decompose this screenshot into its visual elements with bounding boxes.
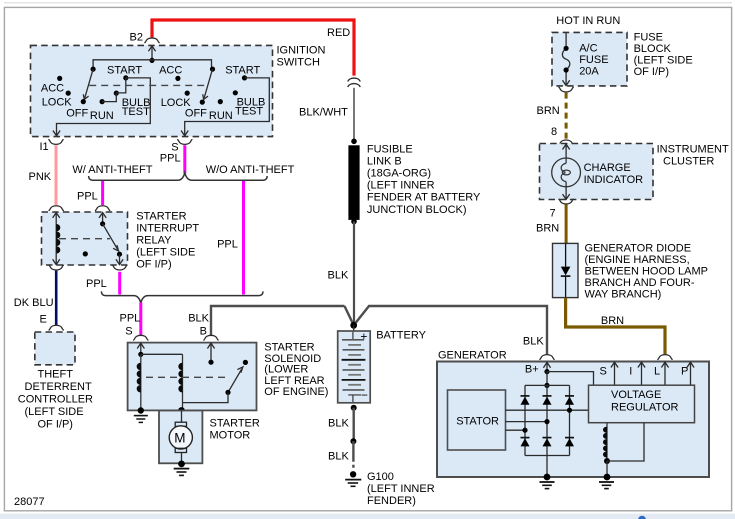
field coil junction dot	[604, 458, 610, 464]
battery box	[338, 331, 371, 403]
svg-text:START: START	[225, 64, 260, 76]
solenoid S junction dot	[138, 352, 143, 357]
battery negative terminal dot	[351, 405, 357, 411]
wire DK BLU relay to theft controller	[55, 271, 58, 326]
svg-text:VOLTAGE: VOLTAGE	[611, 389, 661, 401]
battery plates	[342, 332, 366, 403]
svg-text:GENERATOR DIODE: GENERATOR DIODE	[585, 243, 692, 255]
svg-text:I: I	[629, 366, 632, 378]
connector below relay coil	[49, 265, 64, 270]
svg-text:(LEFT INNER: (LEFT INNER	[367, 483, 435, 495]
stator phase wire 2	[506, 421, 548, 423]
svg-text:STARTER: STARTER	[210, 417, 260, 429]
svg-text:BLK: BLK	[328, 417, 349, 429]
svg-text:THEFT: THEFT	[38, 369, 74, 381]
contact dot OFF left	[81, 99, 86, 104]
terminal P arrow	[687, 362, 694, 385]
rectifier column 2	[546, 385, 548, 477]
svg-text:S: S	[171, 141, 178, 153]
svg-text:FUSE: FUSE	[634, 31, 663, 43]
wire motor to ground	[181, 453, 183, 464]
svg-text:DETERRENT: DETERRENT	[25, 381, 93, 393]
motor ground dot	[178, 461, 185, 468]
svg-text:OF I/P): OF I/P)	[136, 259, 171, 271]
wire START to BULB TEST left	[116, 78, 126, 93]
svg-text:STARTER: STARTER	[264, 342, 314, 354]
ground at rectifier	[540, 482, 555, 489]
relay coil terminal arrow bottom	[53, 251, 60, 264]
svg-text:CHARGE: CHARGE	[584, 162, 631, 174]
diode lower col3	[565, 438, 574, 447]
ignition switch box	[31, 45, 273, 136]
contact dot LOCK right	[185, 91, 190, 96]
wire B+ to voltage regulator	[547, 372, 594, 386]
svg-text:B+: B+	[525, 363, 539, 375]
svg-text:RED: RED	[327, 27, 350, 39]
rectifier column 1	[524, 385, 526, 455]
battery bus wire with dip	[345, 306, 548, 354]
connector at B2	[145, 38, 160, 43]
wire left cluster output to I1	[57, 78, 151, 136]
wire PPL without anti-theft branch	[242, 181, 245, 295]
svg-text:28077: 28077	[14, 496, 45, 508]
stator box	[448, 390, 506, 450]
svg-text:G100: G100	[367, 471, 394, 483]
stator phase wire 1	[506, 409, 589, 411]
solenoid mechanical link dashed	[146, 376, 227, 378]
svg-text:E: E	[40, 314, 47, 326]
svg-text:GENERATOR: GENERATOR	[438, 350, 507, 362]
svg-text:+: +	[360, 329, 367, 343]
contact dot RUN right	[218, 99, 223, 104]
phase 2 junction dot	[544, 419, 549, 424]
rectifier ground dot	[544, 474, 551, 481]
B+ junction dot	[544, 369, 549, 374]
bottom panel strip	[0, 514, 735, 519]
svg-text:A/C: A/C	[579, 43, 597, 55]
svg-text:PPL: PPL	[77, 190, 98, 202]
wire PNK I1 to relay	[55, 145, 58, 205]
rectifier top rail	[525, 384, 570, 386]
brace merging to solenoid S	[101, 291, 263, 303]
ground at starter motor	[174, 469, 190, 476]
contact dot ACC left	[57, 76, 62, 81]
wire PPL from S to brace	[183, 145, 186, 173]
svg-text:SWITCH: SWITCH	[277, 57, 320, 69]
solenoid B contact dot	[208, 360, 213, 365]
relay mechanical link dashed	[59, 238, 110, 240]
connector below cluster	[559, 199, 574, 204]
svg-text:STATOR: STATOR	[456, 416, 499, 428]
rectifier bottom rail	[525, 455, 570, 457]
contact dot BULB TEST right	[233, 90, 238, 95]
fusible link top dot	[351, 139, 357, 145]
solenoid switch contact dot	[243, 360, 248, 365]
svg-text:BATTERY: BATTERY	[376, 330, 426, 342]
svg-text:RUN: RUN	[209, 110, 233, 122]
svg-text:BLK/WHT: BLK/WHT	[299, 107, 348, 119]
field coil	[603, 423, 607, 461]
phase 1 junction dot	[567, 408, 572, 413]
wire RED from B2 to connector	[152, 20, 354, 76]
mechanical link dashed between arms	[89, 84, 205, 86]
svg-text:PNK: PNK	[29, 171, 52, 183]
relay switch contact dot top	[100, 221, 105, 226]
solenoid B terminal arrow	[207, 343, 214, 362]
wire into battery	[353, 325, 355, 332]
terminal arrow into ignition switch at B2	[148, 46, 155, 61]
wire BRN diode to generator L	[566, 298, 665, 355]
splice dot	[350, 438, 356, 444]
junction dot feed	[149, 58, 154, 63]
connector at cluster top	[559, 140, 574, 145]
svg-text:8: 8	[551, 126, 557, 138]
svg-text:OFF: OFF	[66, 108, 88, 120]
svg-text:OF I/P): OF I/P)	[38, 418, 73, 430]
svg-text:CONTROLLER: CONTROLLER	[18, 394, 93, 406]
svg-text:BLK: BLK	[328, 451, 349, 463]
contact dot ACC right	[175, 76, 180, 81]
solenoid ground dot	[138, 407, 144, 413]
svg-text:JUNCTION BLOCK): JUNCTION BLOCK)	[367, 204, 467, 216]
svg-text:WAY BRANCH): WAY BRANCH)	[585, 289, 662, 301]
relay switch terminal arrow top	[99, 212, 106, 223]
svg-text:ACC: ACC	[41, 82, 64, 94]
svg-text:BLK: BLK	[188, 313, 209, 325]
starter interrupt relay box	[42, 212, 128, 265]
solenoid S terminal arrow	[137, 343, 144, 354]
svg-text:PPL: PPL	[120, 313, 141, 325]
diode lower col1	[521, 438, 530, 447]
svg-text:FUSIBLE: FUSIBLE	[367, 143, 413, 155]
svg-text:(LEFT SIDE: (LEFT SIDE	[25, 406, 84, 418]
phase 3 junction dot	[522, 428, 527, 433]
page top hairline	[4, 2, 732, 4]
fuse element A/C 20A	[562, 33, 569, 86]
solenoid output dot to motor	[178, 407, 185, 414]
starter solenoid box	[128, 343, 257, 411]
connector at generator L	[658, 355, 673, 360]
svg-text:PPL: PPL	[160, 153, 181, 165]
svg-text:P: P	[681, 366, 688, 378]
arrow out at S	[181, 131, 188, 136]
svg-text:OFF: OFF	[185, 108, 207, 120]
solenoid switch pivot dot	[225, 390, 230, 395]
motor brush bottom	[175, 448, 186, 452]
svg-text:BETWEEN HOOD LAMP: BETWEEN HOOD LAMP	[585, 266, 708, 278]
fuse block box	[552, 32, 627, 86]
inline connector RED to BLK/WHT	[348, 78, 360, 87]
generator box	[437, 362, 709, 478]
switch arm left	[83, 69, 93, 99]
diode lower col2	[543, 438, 552, 447]
svg-text:M: M	[174, 430, 185, 445]
svg-text:LINK B: LINK B	[367, 155, 402, 167]
svg-text:RELAY: RELAY	[136, 235, 172, 247]
switch arm right	[203, 69, 213, 99]
solenoid hold-in coil	[137, 354, 141, 410]
diode symbol	[561, 243, 571, 297]
svg-text:INTERRUPT: INTERRUPT	[136, 223, 199, 235]
svg-text:I1: I1	[40, 141, 49, 153]
svg-text:W/O ANTI-THEFT: W/O ANTI-THEFT	[206, 164, 295, 176]
connector below fuse block	[559, 87, 574, 92]
theft deterrent controller box	[35, 332, 75, 365]
connector at generator B+	[540, 355, 555, 360]
connector at relay coil input	[49, 206, 64, 211]
wire into motor	[181, 411, 183, 423]
motor M circle	[169, 426, 192, 449]
cluster output arrow	[563, 187, 570, 200]
stator phase wire 3	[506, 429, 526, 431]
relay coil terminal arrow top	[53, 212, 60, 222]
svg-text:STARTER: STARTER	[136, 211, 186, 223]
wire BLK/WHT connector to fusible link	[353, 88, 355, 142]
svg-text:W/ ANTI-THEFT: W/ ANTI-THEFT	[72, 164, 152, 176]
svg-text:OF I/P): OF I/P)	[634, 66, 669, 78]
svg-text:IGNITION: IGNITION	[277, 45, 326, 57]
svg-text:7: 7	[550, 208, 556, 220]
svg-text:(ENGINE HARNESS,: (ENGINE HARNESS,	[585, 254, 690, 266]
svg-text:RUN: RUN	[90, 110, 114, 122]
ground at solenoid	[134, 416, 148, 423]
svg-text:FENDER): FENDER)	[367, 495, 416, 507]
fusible link B element	[348, 145, 359, 220]
connector at solenoid S	[133, 335, 148, 340]
blue icon dot (clipped)	[638, 516, 646, 519]
svg-text:L: L	[654, 366, 660, 378]
contact dot RUN left	[100, 99, 105, 104]
cluster input arrow	[563, 144, 570, 158]
arrow out at I1	[53, 131, 60, 136]
starter motor box	[159, 411, 202, 464]
svg-text:BRN: BRN	[537, 105, 560, 117]
contact dot START left	[123, 75, 128, 80]
svg-text:(18GA-ORG): (18GA-ORG)	[367, 168, 431, 180]
svg-text:MOTOR: MOTOR	[210, 430, 251, 442]
ground at field	[599, 482, 614, 489]
svg-text:TEST: TEST	[122, 106, 150, 118]
svg-text:REGULATOR: REGULATOR	[611, 401, 678, 413]
voltage regulator box	[589, 385, 695, 423]
svg-text:S: S	[600, 366, 607, 378]
diode upper col1	[521, 396, 530, 405]
connector at relay switch input	[95, 206, 110, 211]
svg-text:(LEFT SIDE: (LEFT SIDE	[634, 54, 693, 66]
connector at I1	[49, 139, 64, 144]
pivot dot left arm	[91, 67, 96, 72]
relay switch contact dot bottom	[117, 252, 122, 257]
wire BRN dashed fuse to cluster	[565, 93, 568, 141]
wire BRN cluster to diode	[565, 204, 568, 243]
relay spare contact dot	[83, 251, 88, 256]
connector at solenoid B	[204, 335, 219, 340]
fusible link bottom dot	[351, 219, 357, 225]
instrument cluster box	[540, 144, 654, 200]
rectifier top rail dot	[544, 383, 549, 388]
relay switch terminal arrow bottom	[116, 254, 123, 264]
svg-text:OF ENGINE): OF ENGINE)	[264, 386, 328, 398]
wire field to regulator return	[607, 423, 644, 461]
wire RUN to BULB TEST left	[102, 93, 116, 102]
contact dot BULB TEST left	[114, 91, 119, 96]
svg-text:(LOWER: (LOWER	[264, 364, 308, 376]
connector below relay switch	[112, 265, 127, 270]
brace splitting S wire	[89, 173, 268, 180]
connector at S	[177, 139, 192, 144]
contact dot OFF right	[200, 100, 205, 105]
contact dot START right	[242, 75, 247, 80]
wire PPL with anti-theft branch	[101, 181, 104, 205]
wire PPL relay output	[118, 272, 121, 295]
wire right cluster output to S	[185, 78, 270, 136]
field ground dot	[604, 474, 611, 481]
relay switch arm	[103, 224, 119, 251]
fuse element dots	[564, 46, 569, 51]
wire S to pull-in coil	[141, 353, 183, 355]
svg-text:INDICATOR: INDICATOR	[584, 174, 644, 186]
svg-text:INSTRUMENT: INSTRUMENT	[657, 143, 729, 155]
charge indicator bulb	[552, 158, 581, 187]
diode upper col2	[543, 396, 552, 405]
svg-text:S: S	[125, 326, 132, 338]
svg-text:BRN: BRN	[601, 315, 624, 327]
svg-text:DK BLU: DK BLU	[14, 297, 54, 309]
svg-text:B: B	[200, 326, 207, 338]
ground dot G100	[350, 471, 356, 477]
svg-text:(LEFT INNER: (LEFT INNER	[367, 180, 435, 192]
svg-text:(LEFT SIDE: (LEFT SIDE	[136, 247, 195, 259]
solenoid pull-in coil	[178, 354, 182, 410]
svg-text:BLK: BLK	[523, 335, 544, 347]
svg-text:BLOCK: BLOCK	[634, 43, 672, 55]
solenoid switch arm	[228, 367, 243, 393]
diode upper col3	[565, 396, 574, 405]
svg-text:CLUSTER: CLUSTER	[663, 155, 714, 167]
wire BLK solenoid B to battery bus	[211, 306, 345, 336]
terminal S arrow	[611, 362, 618, 385]
connector at theft controller E	[49, 325, 64, 330]
svg-text:FENDER AT BATTERY: FENDER AT BATTERY	[367, 192, 481, 204]
svg-text:TEST: TEST	[235, 105, 263, 117]
wire BLK fusible link to battery	[353, 222, 355, 325]
svg-text:FUSE: FUSE	[579, 54, 608, 66]
wire feed bus to both arms	[93, 60, 211, 69]
terminal L arrow	[661, 362, 668, 385]
relay coil	[56, 223, 60, 254]
svg-text:20A: 20A	[579, 66, 599, 78]
svg-text:B2: B2	[130, 32, 143, 44]
wire BLK battery to splice	[353, 408, 355, 442]
svg-text:BLK: BLK	[328, 270, 349, 282]
wire PPL brace to solenoid S	[139, 303, 142, 336]
contact dot LOCK left	[66, 91, 71, 96]
terminal I arrow	[638, 362, 645, 385]
ground symbol G100	[345, 480, 361, 487]
svg-text:PPL: PPL	[86, 278, 107, 290]
wire B+ down to rectifier	[546, 372, 548, 386]
svg-text:BRANCH AND FOUR-: BRANCH AND FOUR-	[585, 277, 695, 289]
motor brush top	[175, 422, 186, 426]
svg-text:PPL: PPL	[217, 238, 238, 250]
bulb filament	[561, 158, 566, 187]
wire pivot to motor node	[183, 392, 229, 402]
svg-text:HOT IN RUN: HOT IN RUN	[556, 15, 620, 27]
rectifier column 3	[569, 385, 571, 455]
wire BLK dashed to G100	[352, 441, 354, 468]
pivot dot right arm	[210, 67, 215, 72]
B+ terminal arrow	[543, 362, 550, 371]
svg-text:ACC: ACC	[159, 64, 182, 76]
wire field to ground	[606, 461, 608, 477]
battery junction dot	[350, 322, 357, 329]
generator diode box	[553, 243, 579, 297]
svg-text:BRN: BRN	[536, 222, 559, 234]
svg-text:START: START	[107, 64, 142, 76]
